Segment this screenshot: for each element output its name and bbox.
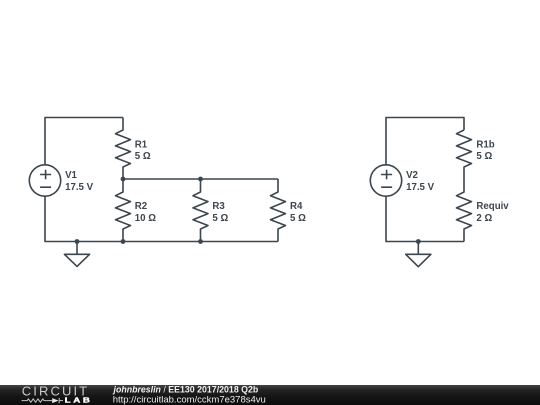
svg-text:5 Ω: 5 Ω <box>290 213 306 224</box>
svg-text:R2: R2 <box>135 201 147 212</box>
svg-text:R3: R3 <box>212 201 225 212</box>
svg-text:LAB: LAB <box>65 396 93 405</box>
svg-text:5 Ω: 5 Ω <box>135 151 151 162</box>
svg-text:V1: V1 <box>65 170 77 181</box>
svg-text:R1b: R1b <box>476 139 494 150</box>
svg-text:johnbreslin / EE130 2017/2018: johnbreslin / EE130 2017/2018 Q2b <box>113 385 259 395</box>
svg-text:5 Ω: 5 Ω <box>212 213 228 224</box>
svg-text:Requiv: Requiv <box>476 201 509 212</box>
svg-text:10 Ω: 10 Ω <box>135 213 156 224</box>
svg-text:17.5 V: 17.5 V <box>65 182 94 193</box>
svg-text:5 Ω: 5 Ω <box>476 151 492 162</box>
svg-text:2 Ω: 2 Ω <box>476 213 492 224</box>
svg-text:http://circuitlab.com/cckm7e37: http://circuitlab.com/cckm7e378s4vu <box>113 395 266 405</box>
svg-text:V2: V2 <box>406 170 418 181</box>
svg-text:R1: R1 <box>135 139 148 150</box>
svg-text:17.5 V: 17.5 V <box>406 182 435 193</box>
svg-text:R4: R4 <box>290 201 303 212</box>
